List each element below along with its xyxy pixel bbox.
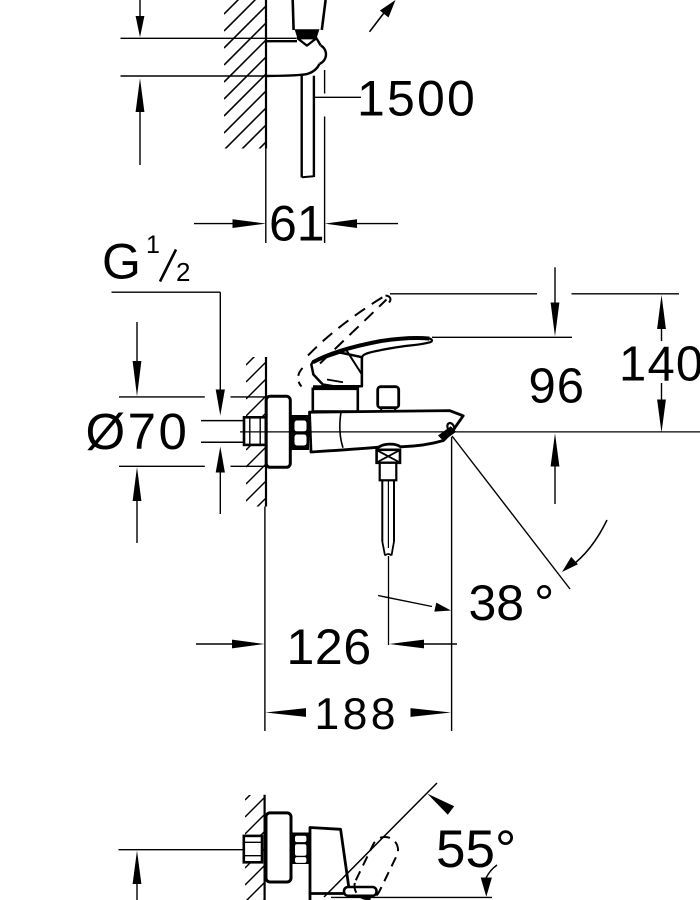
lever blade top (313, 338, 430, 362)
lever hood (311, 353, 362, 387)
faucet body and spout (310, 411, 464, 452)
holder top edge (266, 40, 297, 42)
G1/2 arrow pointing up at pipe (216, 447, 225, 515)
wall face line (top view) (265, 0, 267, 149)
body (bottom view) (310, 828, 350, 894)
wall face line (middle view) (265, 357, 267, 507)
cartridge cap rectangle (313, 389, 358, 412)
svg-text:61: 61 (269, 196, 325, 252)
extension line y=294 (raised lever top) (390, 293, 537, 295)
38 degree straight arrow (378, 596, 451, 612)
dim 96 top arrow (551, 267, 560, 336)
svg-text:1: 1 (146, 231, 160, 259)
dim 140 line and arrows (657, 295, 666, 433)
shower hose (top view) (301, 75, 303, 178)
svg-text:G: G (102, 234, 141, 290)
body-spout joint curve (340, 412, 343, 448)
holder bulge (320, 45, 326, 63)
upper dimension extension line (121, 37, 297, 39)
svg-text:1500: 1500 (357, 71, 477, 127)
extension line from wall down to 61 dim (265, 149, 267, 244)
hose nipple (380, 463, 397, 481)
arrow pointing up at extension line (133, 851, 142, 900)
55 degree arrowhead (427, 794, 454, 815)
lever blade underside (362, 339, 432, 386)
bottom extension line (bottom view) (331, 896, 492, 898)
raised lever (dashed) upper (308, 296, 386, 356)
55 degree down arrow (481, 865, 497, 897)
svg-text:126: 126 (287, 619, 372, 675)
Ø70 extension lines (119, 396, 205, 398)
Ø70 arrow pointing down (133, 322, 142, 396)
hex nut on wall (244, 417, 266, 445)
handle cone (black) (295, 29, 320, 38)
extension line y=337 (lever top) (432, 336, 572, 338)
body foot (bottom view) (344, 887, 377, 896)
hand shower handle sides (291, 0, 294, 30)
38 degree reference line (452, 436, 570, 589)
handle V notch (297, 38, 316, 45)
lower dimension extension line (121, 75, 267, 77)
dim 188 arrows (265, 708, 451, 717)
leader arrow top right (370, 0, 396, 32)
hose (middle view) (382, 480, 394, 555)
G1/2 arrow pointing down at pipe (216, 390, 225, 416)
extension line right of holder for 61 (324, 70, 326, 94)
wall face line (bottom view) (264, 795, 266, 900)
supply pipe lines (201, 420, 245, 422)
diverter knob (378, 387, 399, 412)
svg-text:55°: 55° (436, 820, 516, 879)
shower outlet box with X (377, 450, 400, 463)
holder bottom contour (266, 64, 320, 76)
extension line from wall down to 188 dim (264, 507, 266, 732)
svg-text:38°: 38° (469, 575, 555, 631)
svg-text:140: 140 (619, 338, 700, 392)
dim 126 arrows (196, 640, 457, 649)
svg-text:Ø70: Ø70 (86, 403, 190, 460)
union nut (middle view) (291, 415, 310, 450)
hood inner line 2 (327, 380, 343, 383)
wall hatching (top view) (218, 0, 290, 207)
55 degree reference line (324, 783, 437, 897)
wall hatching (middle view) (240, 335, 276, 541)
lever (dashed, bottom view) (354, 837, 398, 899)
union nut (bottom view) (293, 833, 309, 865)
svg-text:188: 188 (315, 690, 399, 739)
centerline of faucet (240, 431, 700, 433)
svg-text:96: 96 (529, 360, 586, 414)
holder junction (317, 39, 321, 46)
hose extension line down (388, 556, 390, 645)
38 degree arc arrow (562, 520, 607, 572)
escutcheon (middle view) (266, 396, 290, 467)
dimension 61 arrows (194, 219, 398, 228)
aerator outlet (black) (438, 426, 456, 441)
dim 96 bottom arrow (551, 433, 560, 504)
raised lever tip dash (386, 296, 391, 303)
raised lever (dashed) lower (320, 300, 387, 364)
dimension arrow pointing down (top left) (136, 0, 145, 37)
hood shadow band (313, 385, 358, 389)
leader line for 1500 (315, 96, 361, 98)
svg-text:2: 2 (176, 257, 190, 287)
raised lever pivot dash (298, 368, 302, 387)
extension line from spout tip down (451, 437, 453, 731)
extension line (bottom view) (119, 849, 245, 851)
dimension arrow pointing up (top left) (136, 78, 145, 165)
escutcheon (bottom view) (266, 813, 291, 882)
Ø70 arrow pointing up (133, 467, 142, 543)
G1/2 leader line (112, 291, 221, 293)
wall hatching (bottom view) (239, 770, 275, 900)
spout tip ring (446, 422, 456, 433)
hex nut (bottom view) (244, 836, 262, 862)
hood inner line (346, 349, 362, 374)
